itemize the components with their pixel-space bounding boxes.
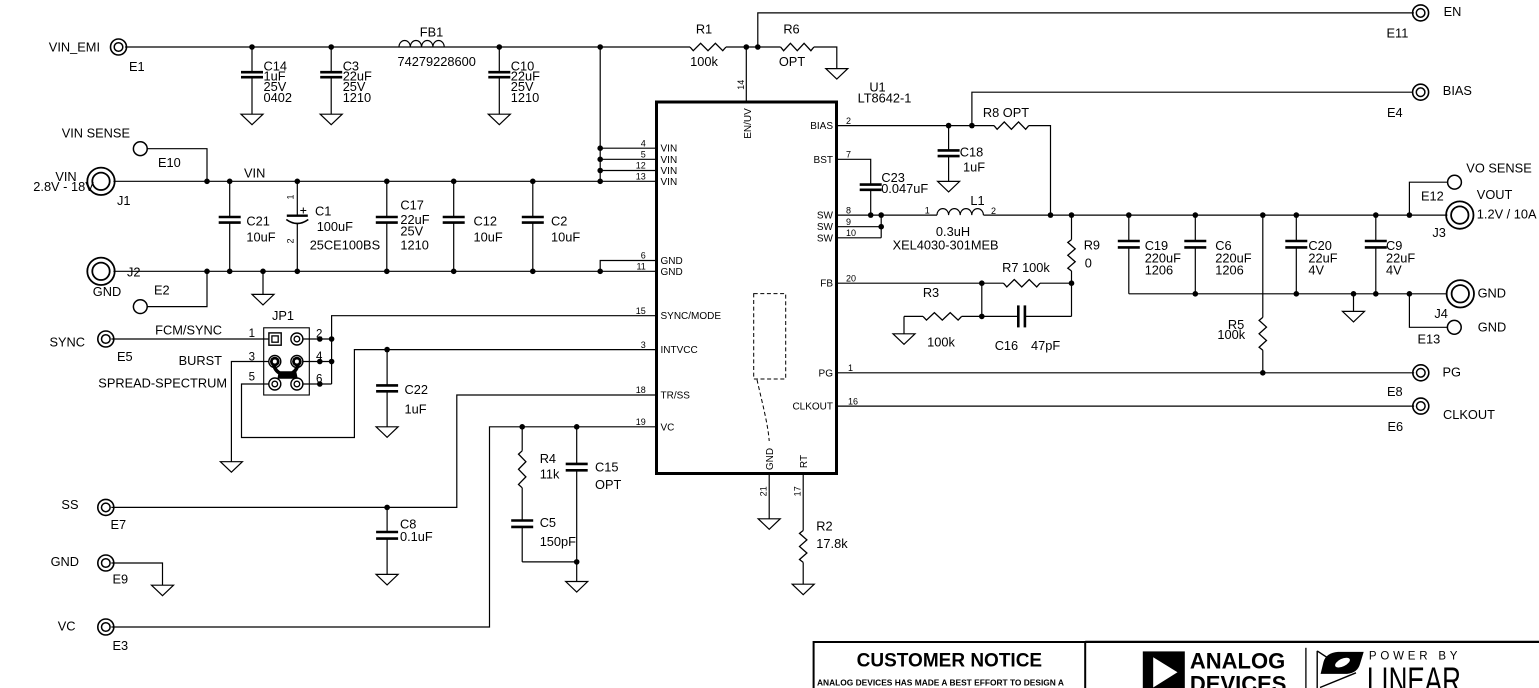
junction VIN pin5 <box>597 157 603 163</box>
capacitor C22 <box>376 350 428 427</box>
junction C17 bottom <box>384 269 390 275</box>
wire JP1 pin5 to INTVCC <box>242 350 657 438</box>
junction VIN vertical <box>597 179 603 185</box>
wire E2 to GND bus <box>147 271 207 306</box>
junction R5/PG <box>1260 370 1266 376</box>
wire VO SENSE <box>1409 182 1447 215</box>
wire R6 to ground <box>814 47 837 69</box>
svg-text:1uF: 1uF <box>405 402 427 417</box>
svg-text:VC: VC <box>58 619 76 634</box>
junction R4 top <box>519 424 525 430</box>
junction C23 bottom <box>868 212 874 218</box>
wire SW pin10 <box>837 237 882 239</box>
capacitor C19 220uF <box>1118 215 1181 294</box>
junction pin2 a <box>317 336 323 342</box>
wire GND bus <box>113 270 656 272</box>
svg-text:E13: E13 <box>1418 332 1441 347</box>
junction C1 top <box>295 179 301 185</box>
Linear Technology logo mark <box>1317 651 1364 688</box>
svg-text:1: 1 <box>925 206 930 216</box>
resistor R6 OPT <box>779 22 814 70</box>
resistor R8 OPT <box>983 105 1029 129</box>
ground (E9) <box>152 585 174 596</box>
svg-text:8: 8 <box>846 205 851 215</box>
jack J4 GND <box>1434 280 1506 321</box>
svg-text:E1: E1 <box>129 59 145 74</box>
svg-text:SS: SS <box>61 497 78 512</box>
capacitor C9 22uF <box>1365 215 1416 294</box>
ground (C14) <box>241 114 263 125</box>
svg-text:12: 12 <box>636 161 646 171</box>
svg-text:SW: SW <box>817 222 834 233</box>
svg-text:E4: E4 <box>1387 105 1403 120</box>
junction C21 bottom <box>227 269 233 275</box>
svg-text:4: 4 <box>641 138 646 148</box>
svg-text:BIAS: BIAS <box>1443 83 1472 98</box>
junction R5 top <box>1260 212 1266 218</box>
svg-text:1210: 1210 <box>511 90 539 105</box>
junction C9 bottom <box>1373 291 1379 297</box>
wire down to VIN pins <box>599 47 601 181</box>
logo strip border <box>1085 642 1539 688</box>
junction VIN pin12 <box>597 168 603 174</box>
svg-text:11: 11 <box>636 262 645 272</box>
svg-text:BST: BST <box>814 155 833 166</box>
net label VIN <box>244 166 265 181</box>
wire SS to TR/SS <box>111 395 656 507</box>
wire E9 to ground <box>111 563 162 585</box>
svg-text:R2: R2 <box>816 519 832 534</box>
svg-text:XEL4030-301MEB: XEL4030-301MEB <box>893 237 999 252</box>
svg-text:E12: E12 <box>1421 188 1444 203</box>
resistor R1 100k <box>690 22 726 70</box>
resistor R3 100k <box>904 285 982 349</box>
ground (JP1 pin3) <box>220 462 242 473</box>
svg-text:PG: PG <box>819 368 834 379</box>
svg-text:14: 14 <box>736 80 746 90</box>
svg-text:10uF: 10uF <box>551 230 580 245</box>
resistor R5 100k <box>1217 317 1266 373</box>
svg-text:GND: GND <box>661 267 683 278</box>
svg-text:GND: GND <box>765 448 776 470</box>
junction SW pin9 <box>878 224 884 230</box>
junction C18 top <box>946 123 952 129</box>
junction C12 top <box>451 179 457 185</box>
JP1 shunt on pins 3-4 <box>270 357 302 379</box>
svg-text:R4: R4 <box>540 451 556 466</box>
svg-text:3: 3 <box>641 340 646 350</box>
U1 bottom pin RT label <box>793 455 811 496</box>
svg-text:E3: E3 <box>113 638 129 653</box>
JP1 pin2 pad <box>291 333 303 345</box>
svg-text:25CE100BS: 25CE100BS <box>310 238 380 253</box>
svg-text:C1: C1 <box>315 204 331 219</box>
wire L1 to VOUT <box>984 214 1448 216</box>
svg-text:SW: SW <box>817 233 834 244</box>
junction R9 bottom <box>1069 280 1075 286</box>
wire JP1 pin4 to common <box>302 361 331 363</box>
wire JP1 pin6 to common <box>302 383 331 385</box>
junction C22 <box>384 347 390 353</box>
svg-text:150pF: 150pF <box>540 534 576 549</box>
U1 bottom pin GND label <box>759 448 777 496</box>
svg-text:L1: L1 <box>970 193 984 208</box>
svg-text:1.2V / 10A: 1.2V / 10A <box>1477 207 1537 222</box>
svg-text:SPREAD-SPECTRUM: SPREAD-SPECTRUM <box>98 376 227 391</box>
svg-text:2: 2 <box>846 116 851 126</box>
wire R3 to ground <box>903 316 905 333</box>
svg-text:GND: GND <box>93 284 121 299</box>
svg-text:E8: E8 <box>1387 384 1403 399</box>
svg-text:LT8642-1: LT8642-1 <box>858 91 912 106</box>
terminal E12 VO SENSE <box>1421 161 1532 204</box>
svg-text:100k: 100k <box>1217 327 1245 342</box>
wire C5 to C15 bottom <box>522 561 577 563</box>
U1 right pin names <box>792 121 833 413</box>
svg-text:0.1uF: 0.1uF <box>400 529 433 544</box>
svg-text:EN/UV: EN/UV <box>743 108 754 139</box>
svg-text:4V: 4V <box>1386 263 1402 278</box>
svg-text:17: 17 <box>793 486 803 496</box>
junction C15 bottom <box>574 559 580 565</box>
svg-text:J4: J4 <box>1434 306 1448 321</box>
svg-text:C15: C15 <box>595 460 618 475</box>
wire JP1 pin3 to ground <box>231 362 269 462</box>
svg-text:E10: E10 <box>158 155 181 170</box>
terminal E3 VC <box>58 619 128 654</box>
wire CLKOUT rail <box>837 405 1415 407</box>
svg-text:5: 5 <box>249 372 255 384</box>
junction C8 <box>384 505 390 511</box>
wire SW pins vertical <box>880 215 882 238</box>
terminal E2 <box>133 283 169 314</box>
ground (C8) <box>376 574 398 585</box>
svg-text:RT: RT <box>799 455 810 468</box>
jack J3 VOUT <box>1432 187 1537 240</box>
ground (R6) <box>826 69 848 80</box>
wire VOUT to R5 <box>1262 215 1264 317</box>
junction BIAS wire <box>969 123 975 129</box>
wire E10 to VIN bus <box>147 149 207 182</box>
wire VIN pin12 <box>600 170 656 172</box>
svg-text:E9: E9 <box>113 572 129 587</box>
capacitor C1 100uF (polarized) <box>286 181 381 271</box>
svg-text:E7: E7 <box>111 517 127 532</box>
wire gnd stub <box>1353 294 1355 312</box>
svg-text:15: 15 <box>636 306 646 316</box>
svg-text:0.047uF: 0.047uF <box>881 181 928 196</box>
svg-text:C21: C21 <box>246 213 269 228</box>
svg-text:E2: E2 <box>154 283 170 298</box>
ground (C3) <box>320 114 342 125</box>
terminal E5 SYNC <box>49 331 132 364</box>
terminal E8 PG <box>1387 365 1461 399</box>
junction GND bus pin6 <box>597 269 603 275</box>
junction EN wire <box>755 44 761 50</box>
op-amp U1 LT8642-1 body <box>657 80 912 474</box>
svg-text:VIN: VIN <box>661 177 678 188</box>
svg-text:19: 19 <box>636 417 646 427</box>
wire VIN pin4 <box>600 147 656 149</box>
junction E2/J2 <box>204 269 210 275</box>
svg-text:10uF: 10uF <box>246 230 275 245</box>
svg-text:LINEAR: LINEAR <box>1367 660 1461 688</box>
capacitor C23 0.047uF <box>860 170 929 215</box>
svg-text:16: 16 <box>848 396 858 406</box>
junction C15 top <box>574 424 580 430</box>
svg-text:FB: FB <box>820 279 833 290</box>
wire GND pin6 connector <box>600 261 656 272</box>
svg-text:OPT: OPT <box>779 54 805 69</box>
svg-text:J1: J1 <box>117 193 131 208</box>
svg-text:2: 2 <box>991 206 996 216</box>
svg-text:GND: GND <box>51 554 79 569</box>
svg-text:25V: 25V <box>400 224 423 239</box>
Analog Devices logo <box>1143 648 1287 688</box>
wire SW bus to L1 <box>837 214 938 216</box>
U1 thermal pad (dashed) <box>754 294 786 441</box>
junction input gnd <box>260 269 266 275</box>
JP1 pin numbers <box>249 328 323 386</box>
svg-text:1210: 1210 <box>400 238 428 253</box>
svg-text:1206: 1206 <box>1145 263 1173 278</box>
wire R7 right <box>1040 282 1072 284</box>
terminal E1 VIN_EMI <box>49 39 145 74</box>
label FCM/SYNC <box>155 323 222 338</box>
junction C20 bottom <box>1294 291 1300 297</box>
svg-text:1: 1 <box>249 328 255 340</box>
svg-text:CUSTOMER NOTICE: CUSTOMER NOTICE <box>857 651 1042 672</box>
junction C17 top <box>384 179 390 185</box>
svg-text:47pF: 47pF <box>1031 338 1060 353</box>
svg-text:VIN_EMI: VIN_EMI <box>49 40 100 55</box>
svg-text:C2: C2 <box>551 213 567 228</box>
ground (pin 21) <box>758 519 780 530</box>
capacitor C15 OPT <box>566 427 622 562</box>
junction R8/SW <box>1048 212 1054 218</box>
terminal E7 SS <box>61 497 126 532</box>
capacitor C8 <box>376 507 433 574</box>
U1 left pin numbers <box>636 138 646 427</box>
terminal E11 EN <box>1387 4 1462 41</box>
junction C6 top <box>1193 212 1199 218</box>
wire R9 node down <box>1071 283 1073 316</box>
svg-text:R1: R1 <box>696 22 712 37</box>
svg-text:11k: 11k <box>540 467 560 482</box>
U1 right pin numbers <box>846 116 858 407</box>
junction E10/J1 <box>204 179 210 185</box>
JP1 pin5 pad <box>269 378 281 390</box>
svg-text:C12: C12 <box>474 213 497 228</box>
wire VIN_EMI rail <box>125 46 690 48</box>
resistor R9 0 <box>1068 215 1100 283</box>
wire JP1 pin2 to common <box>302 338 331 340</box>
junction VIN pin4 <box>597 145 603 151</box>
svg-text:VO SENSE: VO SENSE <box>1466 161 1531 176</box>
svg-text:2: 2 <box>286 238 296 243</box>
svg-text:VOUT: VOUT <box>1477 187 1513 202</box>
ferrite bead FB1 <box>398 25 476 70</box>
U1 left pin names <box>661 144 722 434</box>
svg-text:GND: GND <box>1478 286 1506 301</box>
jack J2 GND <box>87 258 140 299</box>
svg-text:17.8k: 17.8k <box>816 536 848 551</box>
junction R9 top <box>1069 212 1075 218</box>
wire SYNC to JP1 pin1 <box>111 338 269 340</box>
svg-text:21: 21 <box>759 486 769 496</box>
wire to ground (C5/C15) <box>576 562 578 582</box>
ground (input bus) <box>252 271 274 305</box>
POWER BY LINEAR text <box>1367 651 1461 688</box>
capacitor C18 1uF <box>938 126 986 182</box>
ground (output) <box>1343 311 1365 322</box>
svg-text:R6: R6 <box>783 22 799 37</box>
junction C9 top <box>1373 212 1379 218</box>
wire E13 <box>1409 294 1447 328</box>
terminal E6 CLKOUT <box>1388 398 1496 434</box>
wire FB pin20 <box>837 282 1004 284</box>
svg-text:R7 100k: R7 100k <box>1002 260 1050 275</box>
resistor R2 17.8k <box>800 474 849 585</box>
svg-text:100uF: 100uF <box>317 219 353 234</box>
wire VC to pin19 <box>111 427 656 627</box>
svg-text:74279228600: 74279228600 <box>398 54 476 69</box>
capacitor C14 <box>241 47 292 114</box>
junction output gnd <box>1351 291 1357 297</box>
ground (C5/C15) <box>566 582 588 593</box>
resistor R4 11k <box>519 427 560 521</box>
junction C2 top <box>530 179 536 185</box>
svg-text:18: 18 <box>636 385 646 395</box>
svg-text:R3: R3 <box>923 285 939 300</box>
junction pin4 b <box>329 359 335 365</box>
junction C19 top <box>1126 212 1132 218</box>
svg-text:CLKOUT: CLKOUT <box>1443 407 1495 422</box>
svg-text:CLKOUT: CLKOUT <box>792 402 833 413</box>
wire BIAS to E4 <box>972 92 1413 125</box>
JP1 pin3 pad <box>269 356 281 368</box>
svg-text:1206: 1206 <box>1215 263 1243 278</box>
ground (R3) <box>893 334 915 345</box>
svg-text:JP1: JP1 <box>272 308 294 323</box>
svg-text:1: 1 <box>848 363 853 373</box>
svg-text:0402: 0402 <box>264 90 292 105</box>
svg-text:OPT: OPT <box>595 477 621 492</box>
svg-text:VIN: VIN <box>661 155 678 166</box>
ground (C22) <box>376 427 398 438</box>
junction EN/UV pin14 <box>744 44 750 50</box>
svg-text:BURST: BURST <box>179 353 223 368</box>
wire EN up and right <box>758 13 1414 47</box>
resistor R7 100k <box>1002 260 1050 287</box>
svg-text:13: 13 <box>636 172 646 182</box>
svg-text:R8 OPT: R8 OPT <box>983 105 1029 120</box>
terminal E13 GND <box>1418 319 1507 346</box>
junction top-rail to VIN pins <box>597 44 603 50</box>
wire GND pin 21 <box>768 474 770 519</box>
capacitor C5 150pF <box>511 515 576 562</box>
junction pin2 b <box>329 336 335 342</box>
junction C10 <box>497 44 503 50</box>
terminal E9 GND <box>51 554 129 587</box>
svg-text:2.8V - 18V: 2.8V - 18V <box>33 179 94 194</box>
svg-text:ANALOG DEVICES HAS MADE A BEST: ANALOG DEVICES HAS MADE A BEST EFFORT TO… <box>817 678 1064 688</box>
ground (R2) <box>792 584 814 595</box>
svg-text:0: 0 <box>1085 256 1092 271</box>
svg-text:VIN: VIN <box>661 144 678 155</box>
wire EN/UV pin 14 <box>745 47 747 102</box>
label BURST <box>179 353 223 368</box>
svg-text:SW: SW <box>817 211 834 222</box>
svg-text:VIN: VIN <box>661 166 678 177</box>
junction C3 <box>328 44 334 50</box>
junction C16 left <box>979 314 985 320</box>
svg-text:1210: 1210 <box>343 90 371 105</box>
wire output GND bus <box>1129 293 1448 295</box>
junction VOUT sense <box>1407 212 1413 218</box>
svg-text:J3: J3 <box>1432 225 1446 240</box>
svg-text:R9: R9 <box>1084 237 1100 252</box>
ground (C18) <box>938 181 960 192</box>
svg-text:J2: J2 <box>127 265 141 280</box>
svg-text:E5: E5 <box>117 349 133 364</box>
svg-text:GND: GND <box>661 256 683 267</box>
svg-text:20: 20 <box>846 273 856 283</box>
svg-text:5: 5 <box>641 150 646 160</box>
wire R1 to EN node <box>726 46 781 48</box>
junction pin4 a <box>317 359 323 365</box>
svg-text:6: 6 <box>641 251 646 261</box>
svg-text:C18: C18 <box>960 145 983 160</box>
junction C1 bottom <box>295 269 301 275</box>
wire VIN pin5 <box>600 158 656 160</box>
capacitor C6 220uF <box>1184 215 1251 294</box>
terminal E10 VIN SENSE <box>62 126 181 171</box>
svg-text:C17: C17 <box>400 198 423 213</box>
junction C14 <box>249 44 255 50</box>
capacitor C17 <box>376 181 430 271</box>
svg-text:BIAS: BIAS <box>810 121 833 132</box>
JP1 pin6 pad <box>291 378 303 390</box>
svg-text:100k: 100k <box>690 54 718 69</box>
junction C21 top <box>227 179 233 185</box>
svg-text:INTVCC: INTVCC <box>661 345 698 356</box>
wire BIAS pin2 <box>837 125 995 127</box>
svg-text:10uF: 10uF <box>474 230 503 245</box>
junction E13 <box>1407 291 1413 297</box>
wire JP1 common to SYNC/MODE <box>332 316 657 384</box>
svg-text:4V: 4V <box>1308 263 1324 278</box>
svg-text:VIN SENSE: VIN SENSE <box>62 126 130 141</box>
wire VIN bus <box>113 180 656 182</box>
wire R3 to FB <box>981 283 983 316</box>
U1 pin 14 EN/UV label <box>736 80 754 139</box>
capacitor C12 <box>443 181 503 271</box>
junction C6 bottom <box>1193 291 1199 297</box>
jumper JP1 body <box>264 308 310 395</box>
capacitor C2 <box>522 181 581 271</box>
svg-text:100k: 100k <box>927 334 955 349</box>
svg-text:ANALOG: ANALOG <box>1190 648 1285 673</box>
svg-text:E6: E6 <box>1388 419 1404 434</box>
capacitor C21 <box>219 181 276 271</box>
svg-text:1uF: 1uF <box>963 160 985 175</box>
svg-text:VIN: VIN <box>244 166 265 181</box>
svg-text:C5: C5 <box>540 515 556 530</box>
junction SW vertical top <box>878 212 884 218</box>
inductor L1 0.3uH <box>893 193 999 252</box>
label SPREAD-SPECTRUM <box>98 376 227 391</box>
